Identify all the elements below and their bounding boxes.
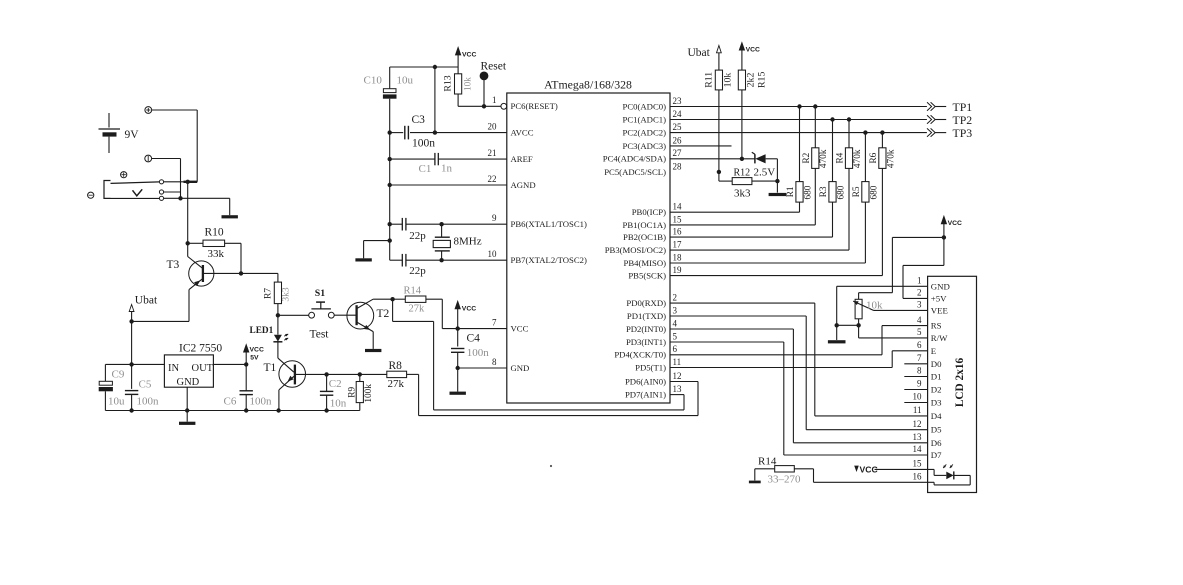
svg-text:R1: R1 (786, 186, 796, 197)
svg-text:2.5V: 2.5V (754, 167, 776, 179)
svg-text:D6: D6 (931, 438, 942, 448)
svg-text:D3: D3 (931, 398, 942, 408)
svg-text:27k: 27k (409, 304, 426, 315)
svg-text:9: 9 (492, 213, 497, 223)
svg-text:D5: D5 (931, 425, 942, 435)
svg-text:3k3: 3k3 (734, 188, 751, 200)
svg-text:470k: 470k (819, 149, 829, 168)
svg-text:10u: 10u (108, 395, 125, 407)
svg-text:GND: GND (177, 377, 200, 388)
svg-text:14: 14 (673, 202, 683, 212)
svg-text:14: 14 (913, 444, 923, 454)
svg-text:C4: C4 (467, 333, 481, 345)
svg-text:2: 2 (673, 293, 678, 303)
svg-text:VCC: VCC (462, 51, 476, 58)
svg-text:22p: 22p (409, 265, 426, 277)
svg-text:TP2: TP2 (953, 113, 973, 127)
svg-text:D7: D7 (931, 450, 942, 460)
svg-text:C1: C1 (419, 163, 432, 175)
svg-text:D4: D4 (931, 411, 942, 421)
svg-text:16: 16 (913, 472, 923, 482)
svg-text:16: 16 (673, 227, 683, 237)
svg-text:13: 13 (673, 384, 683, 394)
svg-text:R8: R8 (389, 360, 403, 372)
svg-text:25: 25 (673, 122, 683, 132)
svg-text:PC0(ADC0): PC0(ADC0) (623, 101, 667, 111)
svg-text:12: 12 (913, 419, 922, 429)
svg-text:T2: T2 (377, 308, 390, 320)
svg-text:RS: RS (931, 321, 942, 331)
svg-text:GND: GND (511, 363, 530, 373)
svg-text:PC4(ADC4/SDA): PC4(ADC4/SDA) (603, 154, 666, 164)
svg-text:680: 680 (803, 185, 813, 199)
svg-text:7: 7 (917, 353, 922, 363)
svg-text:27k: 27k (388, 378, 405, 390)
svg-text:470k: 470k (886, 149, 896, 168)
svg-text:S1: S1 (315, 288, 325, 299)
svg-text:22: 22 (488, 174, 497, 184)
svg-text:13: 13 (913, 432, 923, 442)
svg-text:D2: D2 (931, 385, 942, 395)
svg-text:+5V: +5V (931, 293, 947, 303)
svg-text:11: 11 (913, 405, 922, 415)
svg-text:470k: 470k (853, 149, 863, 168)
svg-text:VCC: VCC (746, 47, 760, 54)
svg-text:27: 27 (673, 148, 683, 158)
svg-text:10k: 10k (463, 77, 473, 91)
svg-text:6: 6 (917, 340, 922, 350)
svg-text:11: 11 (673, 357, 682, 367)
svg-text:17: 17 (673, 240, 683, 250)
svg-text:100n: 100n (137, 395, 160, 407)
svg-text:LCD 2x16: LCD 2x16 (954, 358, 966, 408)
svg-text:23: 23 (673, 96, 683, 106)
svg-text:IC2 7550: IC2 7550 (179, 343, 222, 355)
svg-text:Reset: Reset (481, 61, 507, 73)
svg-text:C2: C2 (329, 378, 342, 390)
svg-text:R5: R5 (852, 186, 862, 197)
svg-text:D0: D0 (931, 359, 942, 369)
svg-text:R4: R4 (836, 152, 846, 163)
svg-text:PC5(ADC5/SCL): PC5(ADC5/SCL) (604, 167, 666, 177)
svg-text:26: 26 (673, 135, 683, 145)
svg-text:24: 24 (673, 109, 683, 119)
svg-text:8MHz: 8MHz (454, 236, 482, 248)
svg-text:PC6(RESET): PC6(RESET) (511, 101, 558, 111)
svg-text:3k3: 3k3 (281, 287, 291, 302)
svg-text:1n: 1n (441, 163, 453, 175)
svg-text:6: 6 (673, 344, 678, 354)
svg-text:PB1(OC1A): PB1(OC1A) (623, 220, 667, 230)
svg-text:2: 2 (917, 288, 922, 298)
svg-text:PC3(ADC3): PC3(ADC3) (623, 141, 667, 151)
svg-text:PC2(ADC2): PC2(ADC2) (623, 128, 667, 138)
svg-text:OUT: OUT (192, 363, 214, 374)
svg-text:D1: D1 (931, 372, 942, 382)
svg-text:VCC: VCC (948, 220, 962, 227)
svg-text:R10: R10 (205, 226, 224, 238)
svg-text:PB7(XTAL2/TOSC2): PB7(XTAL2/TOSC2) (511, 255, 587, 265)
svg-text:R2: R2 (802, 152, 812, 163)
svg-text:AVCC: AVCC (511, 128, 534, 138)
svg-text:100k: 100k (364, 384, 374, 403)
svg-text:PD6(AIN0): PD6(AIN0) (625, 376, 666, 386)
svg-text:10n: 10n (330, 398, 347, 410)
svg-text:5: 5 (917, 327, 922, 337)
svg-text:680: 680 (869, 185, 879, 199)
svg-text:21: 21 (488, 148, 497, 158)
svg-text:Test: Test (310, 328, 330, 340)
svg-text:C5: C5 (139, 378, 152, 390)
svg-text:VCC: VCC (250, 347, 264, 354)
svg-text:20: 20 (488, 121, 498, 131)
svg-text:PD4(XCK/T0): PD4(XCK/T0) (614, 350, 666, 360)
svg-text:PD5(T1): PD5(T1) (635, 362, 666, 372)
svg-text:R13: R13 (443, 75, 454, 91)
svg-text:4: 4 (917, 315, 922, 325)
svg-text:Ubat: Ubat (135, 295, 158, 307)
svg-text:680: 680 (836, 185, 846, 199)
svg-text:R14: R14 (758, 455, 777, 467)
svg-text:PB3(MOSI/OC2): PB3(MOSI/OC2) (605, 245, 666, 255)
svg-text:E: E (931, 346, 936, 356)
svg-text:R15: R15 (756, 72, 767, 88)
svg-text:R12: R12 (734, 167, 751, 178)
svg-text:28: 28 (673, 161, 683, 171)
svg-text:GND: GND (931, 281, 950, 291)
svg-text:3: 3 (917, 300, 922, 310)
svg-text:10k: 10k (866, 300, 883, 312)
svg-text:R9: R9 (348, 387, 358, 398)
svg-text:8: 8 (917, 366, 922, 376)
svg-text:ATmega8/168/328: ATmega8/168/328 (544, 78, 632, 92)
svg-text:19: 19 (673, 265, 683, 275)
svg-text:PB4(MISO): PB4(MISO) (624, 258, 667, 268)
svg-text:100n: 100n (250, 395, 273, 407)
svg-text:15: 15 (913, 459, 923, 469)
svg-text:TP3: TP3 (953, 126, 973, 140)
svg-text:2k2: 2k2 (746, 73, 757, 88)
svg-text:PB6(XTAL1/TOSC1): PB6(XTAL1/TOSC1) (511, 219, 587, 229)
svg-text:VEE: VEE (931, 305, 948, 315)
svg-text:AREF: AREF (511, 154, 533, 164)
svg-text:10: 10 (488, 249, 498, 259)
svg-text:PB0(ICP): PB0(ICP) (632, 207, 666, 217)
svg-text:T3: T3 (167, 259, 180, 271)
svg-text:PD3(INT1): PD3(INT1) (626, 337, 666, 347)
svg-text:12: 12 (673, 371, 682, 381)
svg-text:5V: 5V (250, 355, 259, 362)
svg-text:33–270: 33–270 (768, 474, 802, 486)
svg-text:AGND: AGND (511, 180, 536, 190)
svg-text:TP1: TP1 (953, 100, 973, 114)
svg-text:10k: 10k (722, 73, 733, 88)
svg-text:R11: R11 (704, 72, 715, 88)
svg-text:VCC: VCC (511, 324, 529, 334)
svg-text:R/W: R/W (931, 333, 948, 343)
svg-text:1: 1 (917, 276, 922, 286)
svg-text:R3: R3 (819, 186, 829, 197)
svg-text:C10: C10 (364, 75, 383, 87)
svg-text:100n: 100n (467, 347, 490, 359)
svg-text:15: 15 (673, 214, 683, 224)
svg-text:5: 5 (673, 331, 678, 341)
svg-text:PB2(OC1B): PB2(OC1B) (623, 232, 666, 242)
svg-text:R7: R7 (264, 288, 274, 299)
svg-text:33k: 33k (208, 248, 225, 260)
svg-text:22p: 22p (409, 230, 426, 242)
svg-text:PC1(ADC1): PC1(ADC1) (623, 114, 667, 124)
svg-text:PD7(AIN1): PD7(AIN1) (625, 390, 666, 400)
svg-text:7: 7 (492, 317, 497, 327)
svg-text:PD0(RXD): PD0(RXD) (626, 298, 666, 308)
svg-text:PB5(SCK): PB5(SCK) (628, 271, 666, 281)
svg-text:IN: IN (168, 363, 179, 374)
svg-text:100n: 100n (412, 137, 435, 149)
svg-text:10: 10 (913, 392, 923, 402)
svg-text:8: 8 (492, 357, 497, 367)
svg-text:9V: 9V (125, 129, 140, 141)
svg-text:LED1: LED1 (250, 326, 274, 336)
svg-text:R6: R6 (869, 152, 879, 163)
svg-text:PD2(INT0): PD2(INT0) (626, 324, 666, 334)
svg-text:T1: T1 (264, 362, 277, 374)
svg-text:3: 3 (673, 305, 678, 315)
svg-text:C6: C6 (224, 395, 237, 407)
svg-text:10u: 10u (397, 75, 414, 87)
svg-text:Ubat: Ubat (688, 47, 711, 59)
svg-text:VCC: VCC (462, 305, 476, 312)
svg-text:C3: C3 (412, 114, 426, 126)
svg-text:9: 9 (917, 379, 922, 389)
svg-text:R14: R14 (404, 286, 422, 297)
svg-text:18: 18 (673, 252, 683, 262)
svg-text:C9: C9 (112, 369, 125, 381)
svg-text:4: 4 (673, 318, 678, 328)
svg-text:PD1(TXD): PD1(TXD) (627, 311, 666, 321)
svg-text:1: 1 (492, 95, 497, 105)
